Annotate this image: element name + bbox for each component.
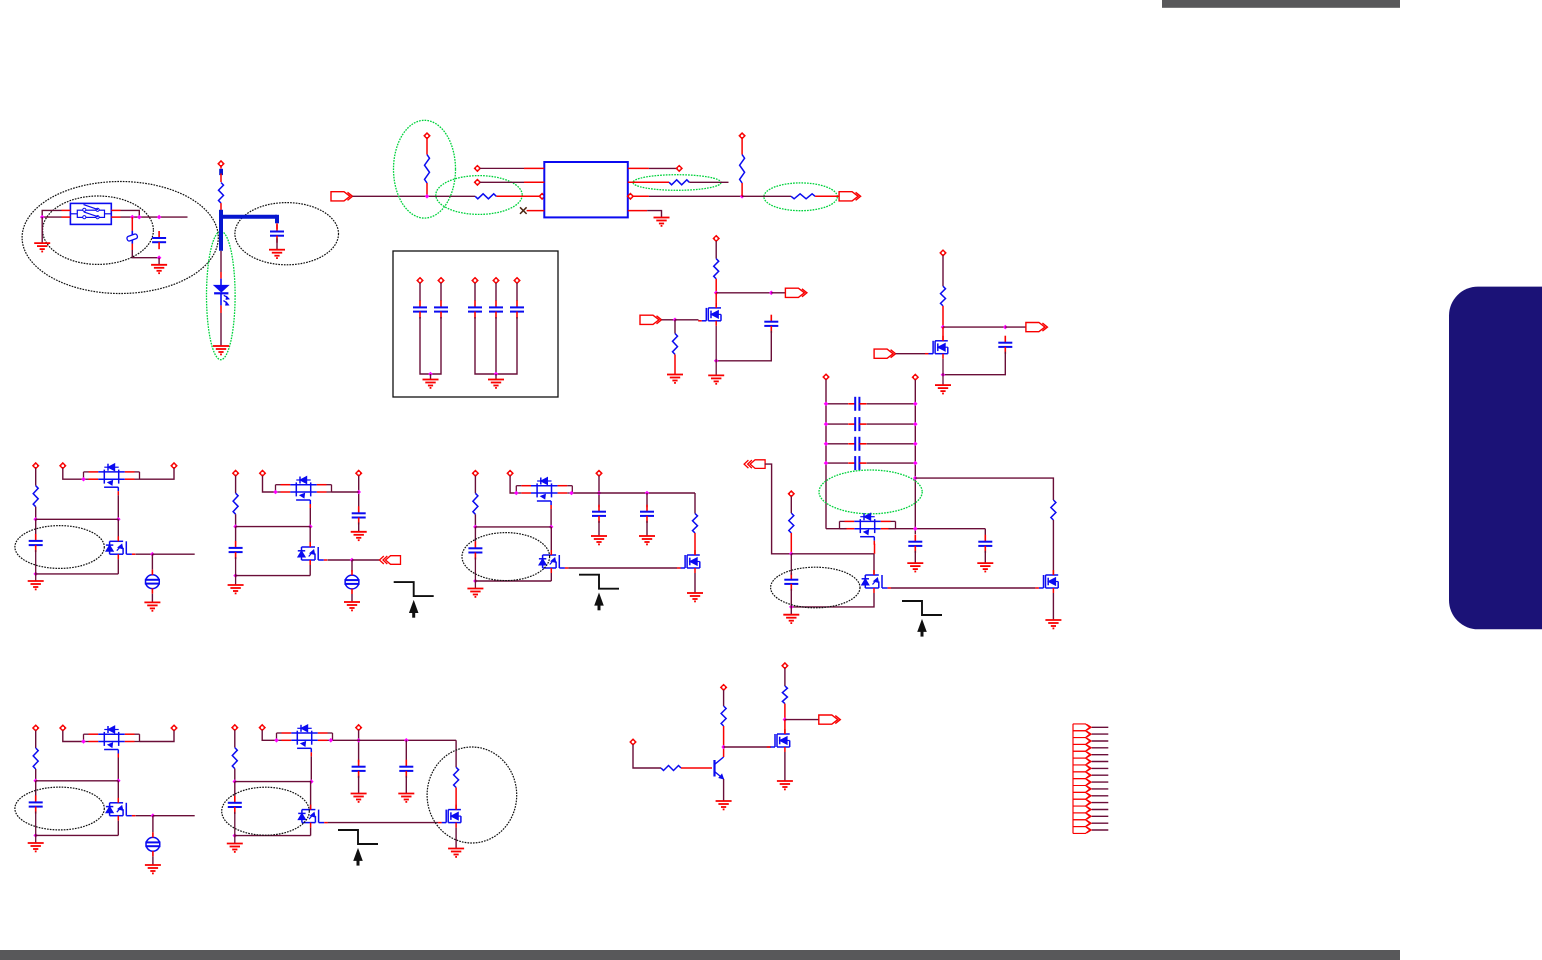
wire switch upper left bbox=[42, 210, 61, 217]
wire B3 pin3 down bbox=[598, 476, 600, 508]
capacitor B4 C20 bbox=[908, 535, 922, 553]
wire B3 gate link bbox=[568, 567, 677, 569]
step annotation B4 bbox=[902, 601, 942, 637]
wire B3 pmos gate drop bbox=[550, 509, 552, 527]
junction B5 row left bbox=[33, 779, 38, 784]
port M2 output bbox=[1026, 323, 1048, 332]
wire CN1 pin 8 bbox=[1092, 774, 1109, 776]
resistor B3 R13 bbox=[693, 514, 698, 534]
wire B5 pin1 to resistor bbox=[35, 731, 37, 749]
junction B1 pmos left bbox=[81, 477, 86, 482]
wire B1 gate exit to node bbox=[136, 553, 153, 555]
junction B4 sense bbox=[913, 476, 918, 481]
ground Q19 bbox=[777, 781, 793, 789]
pin B6 supply B bbox=[259, 725, 265, 731]
wire CN1 pin 14 bbox=[1092, 815, 1109, 817]
ground M1 bbox=[708, 375, 724, 383]
wire M1 input bbox=[662, 319, 676, 321]
wire B6 pin2 to pmos bbox=[262, 730, 276, 740]
capacitor B4 C22 bbox=[784, 573, 798, 591]
wire B3 C15 to ground bbox=[646, 521, 648, 536]
capacitor B3 C14 bbox=[592, 505, 606, 523]
wire B5 row bbox=[36, 780, 119, 782]
pin B4 R14 top bbox=[788, 491, 794, 497]
pin R2 top bbox=[424, 133, 430, 139]
pin bank cap 5 bbox=[514, 277, 520, 283]
port B4 input bbox=[744, 460, 765, 469]
wire B2 pin3 down bbox=[358, 476, 360, 509]
junction B6 pin3 bbox=[356, 738, 361, 743]
resistor R B1 bbox=[33, 486, 38, 507]
wire CN1 pin 1 bbox=[1092, 726, 1109, 728]
capacitor B1 cap bbox=[29, 534, 43, 552]
step annotation B6 bbox=[338, 830, 378, 866]
ground Q18 bbox=[716, 801, 732, 809]
wire B6 Q17 source bbox=[455, 828, 457, 848]
transistor Q18 npn bbox=[715, 757, 724, 779]
pin B6 supply C bbox=[356, 725, 362, 731]
ground B3 Q9 bbox=[687, 593, 703, 601]
wire B2 isrc drop bbox=[351, 560, 353, 572]
junction B3 row right bbox=[549, 525, 554, 530]
wire B4 pmos right link bbox=[889, 528, 986, 530]
transistor B6 Q17 bbox=[438, 805, 461, 828]
wire M2 drain drop bbox=[942, 327, 944, 341]
wire M1 source drop bbox=[715, 326, 717, 375]
wire M2 pin to R9 bbox=[942, 255, 944, 286]
junction B2 pmos left bbox=[273, 490, 278, 495]
junction switch right a bbox=[130, 215, 135, 220]
wire B6 C25 to ground bbox=[405, 776, 407, 793]
resistor R21 bbox=[782, 686, 787, 704]
wire M2 source drop bbox=[942, 359, 944, 385]
junction B6 bottom bbox=[233, 833, 238, 838]
wire B4 C22 top bbox=[790, 554, 792, 575]
port DC output bbox=[839, 192, 861, 201]
wire CN1 pin 12 bbox=[1092, 802, 1109, 804]
stub switch upper right bbox=[111, 209, 120, 211]
wire CN1 pin 2 bbox=[1092, 733, 1109, 735]
wire M2 input bbox=[896, 353, 925, 355]
port M1 output bbox=[785, 288, 807, 297]
wire bead to R1 bbox=[220, 174, 222, 183]
stub LED cathode bbox=[220, 305, 222, 313]
wire U1 pin2 bbox=[480, 181, 524, 183]
wire B5 gate exit to node bbox=[136, 815, 153, 817]
node VLED thick bus bbox=[219, 210, 277, 251]
transistor B5 pmos bbox=[84, 726, 140, 758]
pin bank cap 4 bbox=[493, 277, 499, 283]
transistor B3 pmos bbox=[516, 478, 572, 510]
wire bank cap 4 bottom bbox=[495, 317, 497, 374]
port M2 input bbox=[874, 349, 896, 358]
junction B2 bottom bbox=[233, 573, 238, 578]
junction M2 source bbox=[941, 372, 946, 377]
transistor B2 pmos bbox=[276, 477, 332, 509]
wire M1 pin to R7 bbox=[715, 241, 717, 259]
wire B3 pin2 to pmos bbox=[510, 476, 516, 493]
wire B4 cap row 4 right bbox=[867, 462, 916, 464]
wire U1 pinC stub bbox=[633, 195, 649, 197]
junction R6 bbox=[740, 194, 745, 199]
fuse F1 bbox=[126, 231, 138, 244]
wire collector to Q19 gate bbox=[724, 746, 771, 748]
ground LED bbox=[213, 346, 229, 354]
wire Q18 emitter bbox=[723, 779, 725, 801]
junction B1 bottom bbox=[33, 572, 38, 577]
wire U1 pinD stub bbox=[628, 210, 647, 212]
wire B5 row to cap bbox=[35, 781, 37, 796]
wire B4 pmos gate drop bbox=[874, 544, 876, 554]
resistor R B5 bbox=[33, 748, 38, 769]
ground B3 left bbox=[467, 589, 483, 597]
wire B1 cap to ground bbox=[35, 550, 37, 581]
wire bank group2 drop bbox=[495, 374, 497, 379]
annotation ellipse B6 bbox=[222, 787, 310, 835]
pin R6 top bbox=[739, 133, 745, 139]
wire B2 resistor to row bbox=[235, 514, 237, 526]
wire B6 pin1 to resistor bbox=[234, 730, 236, 748]
stub switch lower left bbox=[62, 216, 71, 218]
wire B5 bottom row bbox=[36, 834, 119, 836]
capacitor B3 C15 bbox=[640, 505, 654, 523]
ground B1 isrc bbox=[144, 602, 160, 610]
wire M2 node to port bbox=[1005, 326, 1026, 328]
capacitor C6 bbox=[434, 300, 448, 318]
capacitor B5 cap bbox=[29, 795, 43, 813]
junction B4 row 2 right bbox=[913, 422, 918, 427]
wire B4 right rail bbox=[914, 380, 916, 535]
transistor Q19 bbox=[767, 729, 790, 752]
ground R8 bbox=[667, 375, 683, 383]
pin B3 supply A bbox=[472, 470, 478, 476]
wire B2 C12 to ground bbox=[358, 522, 360, 531]
resistor R B2 bbox=[233, 493, 238, 514]
pin bank cap 2 bbox=[438, 277, 444, 283]
wire B1 bottom row bbox=[36, 573, 119, 575]
pin U1 pinA node bbox=[676, 165, 682, 171]
wire R6 to net bbox=[741, 183, 743, 196]
wire B3 row to cap bbox=[474, 527, 476, 542]
annotation ellipse B3 bbox=[462, 533, 550, 581]
capacitor B4 C17 bbox=[848, 417, 866, 431]
resistor R20 bbox=[721, 706, 726, 726]
resistor R7 bbox=[714, 259, 719, 279]
junction B3 row left bbox=[473, 525, 478, 530]
wire B6 C24 to ground bbox=[358, 776, 360, 793]
junction B6 row right bbox=[309, 779, 314, 784]
capacitor B6 C24 bbox=[352, 760, 366, 778]
wire U1 pinB stub bbox=[628, 181, 669, 183]
pin B5 supply C bbox=[171, 725, 177, 731]
junction bank group2 bbox=[494, 372, 499, 377]
wire pin to R20 bbox=[723, 690, 725, 706]
ground B6 Q17 bbox=[448, 849, 464, 857]
resistor R5 bbox=[791, 194, 815, 199]
wire bank cap 5 bottom bbox=[496, 317, 517, 374]
resistor B6 R18 bbox=[454, 767, 459, 787]
wire Q18 input bbox=[633, 745, 661, 769]
junction B4 row 4 right bbox=[913, 461, 918, 466]
wire switch upper right bbox=[121, 210, 140, 217]
wire B2 row bbox=[236, 526, 311, 528]
port M1 input bbox=[640, 315, 662, 324]
wire B1 isrc drop bbox=[151, 554, 153, 570]
wire CN1 pin 4 bbox=[1092, 747, 1109, 749]
transistor B5 nmos bbox=[106, 798, 135, 821]
current source B1 bbox=[145, 570, 160, 594]
wire B6 C25 drop bbox=[405, 740, 407, 762]
ground B5 isrc bbox=[145, 865, 161, 873]
pin M1 supply bbox=[713, 235, 719, 241]
pin B4 rail left bbox=[823, 374, 829, 380]
junction Q19 drain bbox=[783, 717, 788, 722]
wire C2 to ground bbox=[276, 238, 278, 249]
pin U1 pinC node bbox=[627, 193, 633, 199]
wire B6 pin3 to pmos bbox=[333, 739, 359, 741]
wire B4 pin to R14 bbox=[790, 496, 792, 513]
wire B6 row bbox=[235, 781, 311, 783]
side tab bbox=[1449, 287, 1542, 630]
wire B1 out bbox=[152, 553, 194, 555]
annotation ellipse green R3 bbox=[436, 176, 522, 215]
transistor Q1 bbox=[698, 303, 721, 326]
capacitor C8 bbox=[489, 300, 503, 318]
pin B1 supply B bbox=[60, 463, 66, 469]
ground B6 C25 bbox=[398, 794, 414, 802]
junction B3 pmos right bbox=[569, 491, 574, 496]
wire switch left ground drop bbox=[41, 217, 43, 243]
wire B4 port to gate bbox=[765, 464, 792, 554]
wire B4 Q11 source bbox=[791, 593, 874, 607]
wire bank cap 3 top bbox=[474, 283, 476, 301]
wire fuse top bbox=[131, 217, 133, 231]
wire pin to R6 bbox=[741, 138, 743, 154]
wire B1 isrc to ground bbox=[151, 594, 153, 602]
resistor B4 R14 bbox=[789, 513, 794, 533]
annotation circle B6 bbox=[427, 747, 517, 843]
junction B4 cap22 bottom bbox=[789, 605, 794, 610]
wire CN1 pin 13 bbox=[1092, 809, 1109, 811]
resistor R B6 bbox=[232, 748, 237, 769]
wire R1 to node bbox=[220, 203, 222, 210]
current source B2 bbox=[344, 570, 359, 594]
junction B3 pmos left bbox=[514, 491, 519, 496]
pin Q18 input bbox=[630, 739, 636, 745]
resistor B4 R15 bbox=[1051, 500, 1056, 520]
port Q19 output bbox=[819, 715, 841, 724]
wire B5 out bbox=[153, 815, 195, 817]
bottom footer bar bbox=[0, 950, 1400, 960]
wire B3 right branch drop bbox=[694, 493, 696, 514]
ground B2 left bbox=[228, 585, 244, 593]
wire bank group1 drop bbox=[430, 374, 432, 379]
resistor R19 bbox=[661, 766, 681, 771]
capacitor C9 bbox=[510, 300, 524, 318]
annotation ellipse B4 green bbox=[819, 470, 922, 514]
wire B3 bottom row bbox=[475, 580, 551, 582]
wire B3 R13 to Q9 bbox=[694, 533, 696, 555]
junction R2 bbox=[425, 194, 430, 199]
wire B6 nmos drain bbox=[310, 782, 312, 810]
junction B4 row 2 left bbox=[824, 422, 829, 427]
junction M2 drain bbox=[941, 325, 946, 330]
junction B6 pmos right bbox=[329, 738, 334, 743]
wire R4 out bbox=[689, 181, 728, 183]
connector CN1 ports bbox=[1073, 724, 1091, 834]
wire B5 pmos gate drop bbox=[117, 758, 119, 781]
current source B5 bbox=[145, 832, 160, 856]
junction B4 row 1 right bbox=[913, 402, 918, 407]
wire B4 sense right bbox=[915, 478, 1053, 500]
wire bank cap 1 top bbox=[419, 283, 421, 301]
wire B4 cap row 3 left bbox=[826, 443, 848, 445]
wire port to R3 bbox=[353, 195, 476, 197]
IC U1 bbox=[544, 162, 628, 217]
wire B3 resistor to row bbox=[474, 514, 476, 527]
wire B6 pmos gate drop bbox=[310, 756, 312, 781]
wire B6 row to cap bbox=[234, 782, 236, 796]
wire B5 nmos source drop bbox=[117, 821, 119, 836]
annotation ellipse B5 bbox=[15, 787, 104, 830]
annotation ellipse green R5 bbox=[764, 183, 837, 211]
port DC input bbox=[331, 192, 353, 201]
resistor R2 bbox=[425, 155, 430, 183]
wire B2 gate exit to node bbox=[328, 559, 353, 561]
wire bank cap 4 top bbox=[495, 283, 497, 301]
wire B3 C14 to ground bbox=[598, 521, 600, 536]
annotation ellipse outer bbox=[22, 182, 218, 294]
annotation ellipse right bbox=[235, 203, 339, 265]
junction B2 row left bbox=[233, 524, 238, 529]
annotation ellipse inner bbox=[43, 196, 154, 264]
wire R20 to collector bbox=[723, 726, 725, 757]
wire B1 row bbox=[36, 518, 119, 520]
wire B2 pin1 to resistor bbox=[235, 476, 237, 494]
capacitor B6 cap bbox=[228, 796, 242, 814]
wire B2 out to port bbox=[352, 559, 380, 561]
ground B4 C21 bbox=[977, 563, 993, 571]
wire bank cap 1 bottom bbox=[420, 317, 431, 374]
pin B2 supply C bbox=[356, 470, 362, 476]
wire B3 Q9 source bbox=[694, 573, 696, 593]
transistor B4 pmos Q10 bbox=[840, 513, 896, 545]
resistor R3 bbox=[475, 194, 496, 199]
ground B6 left bbox=[227, 844, 243, 852]
wire B4 cap row 1 right bbox=[867, 403, 916, 405]
wire net to R5 bbox=[742, 195, 791, 197]
wire R8 to ground bbox=[674, 354, 676, 374]
wire B1 nmos source drop bbox=[117, 559, 119, 574]
wire bank cap 2 bottom bbox=[431, 317, 442, 374]
annotation ellipse B4 black bbox=[771, 567, 860, 608]
pin B1 supply C bbox=[171, 463, 177, 469]
wire B3 pin3 to pmos bbox=[572, 492, 599, 494]
junction M2 cap top bbox=[1003, 325, 1008, 330]
wire R19 to base bbox=[681, 767, 712, 769]
wire pin to R2 bbox=[426, 138, 428, 154]
pin LED supply bbox=[218, 161, 224, 167]
junction B5 bottom bbox=[33, 833, 38, 838]
step annotation B2 bbox=[394, 582, 434, 618]
wire B2 isrc to ground bbox=[351, 594, 353, 602]
pin B4 rail right bbox=[912, 374, 918, 380]
wire B1 pin1 to resistor bbox=[35, 468, 37, 486]
wire C1 bottom to ground bbox=[158, 258, 160, 265]
wire CN1 pin 16 bbox=[1092, 829, 1109, 831]
pin B3 supply C bbox=[596, 470, 602, 476]
wire B3 cap to ground bbox=[474, 557, 476, 588]
pin Q18 collector supply bbox=[721, 684, 727, 690]
junction B5 out bbox=[151, 813, 156, 818]
wire B4 R15 to Q12 bbox=[1052, 520, 1054, 575]
wire B4 R14 down bbox=[790, 533, 792, 554]
pin U1 pin3 bbox=[539, 193, 545, 199]
step annotation B3 bbox=[579, 575, 619, 611]
wire B5 pin2 to pmos bbox=[63, 731, 84, 742]
junction B4 row 3 right bbox=[913, 442, 918, 447]
pin M2 supply bbox=[940, 250, 946, 256]
pin B2 supply A bbox=[233, 470, 239, 476]
junction switch right b bbox=[137, 215, 142, 220]
stub switch lower right bbox=[111, 216, 120, 218]
wire B2 pmos gate drop bbox=[309, 508, 311, 527]
wire R2 to net bbox=[426, 183, 428, 196]
wire B4 C22 to ground bbox=[790, 589, 792, 614]
capacitor C2 bbox=[270, 225, 284, 243]
pin bank cap 1 bbox=[417, 277, 423, 283]
junction B6 pmos left bbox=[274, 738, 279, 743]
junction B2 pin3 bbox=[356, 490, 361, 495]
wire B4 pmos left link bbox=[826, 528, 847, 530]
wire U1 pinA bbox=[649, 167, 677, 169]
capacitor bank outline bbox=[393, 251, 558, 397]
ground B4 C22 bbox=[783, 615, 799, 623]
wire B3 nmos source drop bbox=[550, 573, 552, 581]
junction B4 rail cap bbox=[913, 526, 918, 531]
wire R7 to drain node bbox=[715, 279, 717, 293]
ground U1 pinD bbox=[654, 218, 670, 226]
resistor R9 bbox=[941, 286, 946, 306]
wire B4 C20 to ground bbox=[914, 551, 916, 563]
wire B5 isrc drop bbox=[152, 816, 154, 833]
wire B6 nmos source drop bbox=[310, 828, 312, 836]
resistor R1 bbox=[219, 183, 224, 204]
capacitor C7 bbox=[468, 300, 482, 318]
junction B1 out bbox=[150, 552, 155, 557]
wire B4 left rail bbox=[825, 380, 827, 529]
wire B3 pin1 to resistor bbox=[474, 476, 476, 494]
wire Q19 drain drop bbox=[784, 720, 786, 734]
wire B2 cap to ground bbox=[235, 557, 237, 585]
wire B3 nmos drain bbox=[550, 527, 552, 555]
ground B3 C15 bbox=[639, 536, 655, 544]
ground bank group1 bbox=[423, 380, 439, 388]
ground B4 Q12 bbox=[1045, 620, 1061, 628]
wire B5 resistor to row bbox=[35, 769, 37, 781]
wire B1 row to cap bbox=[35, 519, 37, 534]
junction M1 gate bbox=[673, 318, 678, 323]
junction B4 row 4 left bbox=[824, 461, 829, 466]
junction switch left bbox=[40, 215, 45, 220]
stub LED anode bbox=[220, 272, 222, 279]
wire B1 pin3 to pmos bbox=[140, 468, 175, 479]
wire R9 to drain node bbox=[942, 306, 944, 327]
transistor B6 nmos bbox=[298, 805, 327, 828]
ground B2 isrc bbox=[344, 602, 360, 610]
pin U1 pin2 node bbox=[474, 179, 480, 185]
junction Q18 collector bbox=[721, 745, 726, 750]
